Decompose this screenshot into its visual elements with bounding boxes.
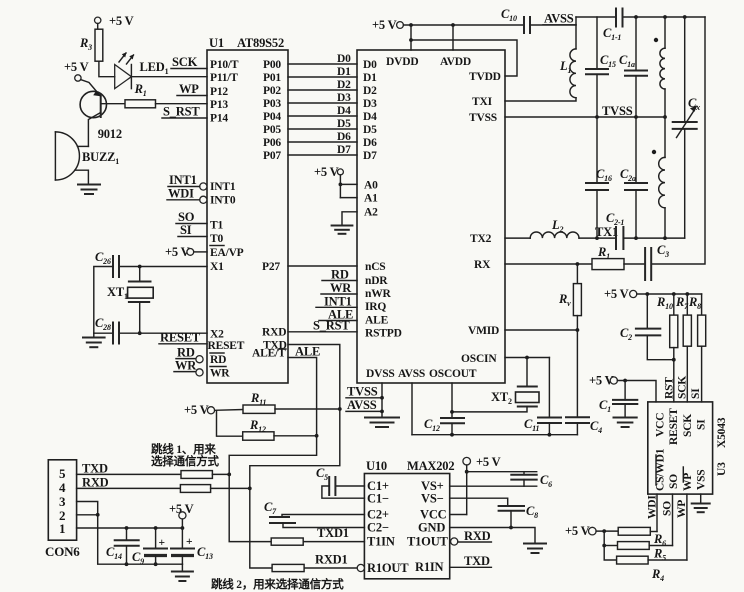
node RXD (T1OUT stub) xyxy=(451,529,492,545)
svg-text:ALE: ALE xyxy=(295,345,320,359)
node AVDD junction xyxy=(451,23,455,27)
+5V terminal (emitter) xyxy=(64,60,89,81)
svg-text:+5 V: +5 V xyxy=(565,524,590,538)
capacitor C3 xyxy=(645,243,669,280)
node SO (label stub) xyxy=(176,210,207,224)
svg-text:+5 V: +5 V xyxy=(109,14,134,28)
svg-text:SCK: SCK xyxy=(682,414,694,437)
svg-text:EA/VP: EA/VP xyxy=(210,247,244,259)
svg-text:D2: D2 xyxy=(337,79,351,91)
svg-text:P07: P07 xyxy=(263,150,281,162)
resistor jumper J1 xyxy=(181,471,212,479)
svg-text:DVDD: DVDD xyxy=(386,56,418,68)
transistor Q1 9012 xyxy=(80,80,122,147)
wire TX2 xyxy=(505,237,530,239)
svg-text:X1: X1 xyxy=(210,261,224,273)
svg-text:WDI: WDI xyxy=(647,495,659,519)
capacitor C10 xyxy=(501,7,530,33)
svg-text:T1IN: T1IN xyxy=(367,535,395,549)
crystal XT2 xyxy=(452,358,539,412)
ground (C28) xyxy=(83,333,105,347)
capacitor C1 xyxy=(599,381,637,418)
svg-text:OSCIN: OSCIN xyxy=(461,353,497,365)
wire pin5 TXD xyxy=(77,473,181,475)
svg-text:RXD1: RXD1 xyxy=(315,553,348,567)
resistor R6 xyxy=(618,527,666,548)
wire RX xyxy=(505,263,592,265)
node TVSS (label stub) xyxy=(346,385,384,400)
svg-text:TXI: TXI xyxy=(472,96,493,108)
svg-text:A2: A2 xyxy=(364,207,378,219)
node top rail junctions xyxy=(634,15,638,19)
svg-text:P11/T: P11/T xyxy=(210,72,238,84)
svg-text:D6: D6 xyxy=(363,137,377,149)
svg-text:D5: D5 xyxy=(363,124,377,136)
wire right edge (antenna return) xyxy=(651,17,705,264)
ground (A2) xyxy=(332,226,353,234)
resistor jumper J2 xyxy=(180,485,210,493)
node ALE label + wire ALE/T net xyxy=(227,345,320,542)
node RESET (label stub) xyxy=(159,331,207,345)
+5V terminal (pullups) xyxy=(604,287,702,301)
svg-text:WP: WP xyxy=(676,500,688,518)
ground (buzzer) xyxy=(78,185,100,195)
data bus wires D0-D7 with labels xyxy=(288,53,357,156)
LED LED1 xyxy=(115,52,169,88)
capacitor C11 xyxy=(524,358,561,435)
wire VS- / capacitor C8 xyxy=(450,498,538,529)
wire xyxy=(97,24,99,30)
svg-text:WR: WR xyxy=(210,368,230,380)
U1 right pin names xyxy=(252,59,287,360)
svg-text:RXD: RXD xyxy=(464,529,491,543)
svg-text:+5 V: +5 V xyxy=(476,455,501,469)
svg-text:3: 3 xyxy=(59,494,66,509)
wire C26 to C28 xyxy=(94,267,113,334)
svg-text:R1IN: R1IN xyxy=(415,560,444,574)
svg-text:VCC: VCC xyxy=(420,508,447,522)
wire pin1 +5V rail xyxy=(77,526,185,530)
svg-text:P14: P14 xyxy=(210,113,228,125)
svg-text:SO: SO xyxy=(178,210,195,224)
resistor R11 xyxy=(215,391,340,413)
svg-text:C2−: C2− xyxy=(367,521,389,535)
resistor R4 xyxy=(617,556,687,583)
node X2 junction xyxy=(138,331,142,335)
wire LED to P11/T xyxy=(131,76,207,78)
svg-text:WP: WP xyxy=(179,82,199,96)
node S_RST wire RXD-RSTPD xyxy=(288,319,357,333)
wire L1 to TXI xyxy=(505,98,576,101)
node TVSS rail xyxy=(505,104,667,119)
svg-text:AVSS: AVSS xyxy=(544,12,574,26)
resistor R1 (base) xyxy=(102,82,207,108)
wire VS+ xyxy=(450,485,537,487)
node RD (label stub) xyxy=(322,268,357,282)
wire TXD net xyxy=(248,345,342,569)
capacitor C13 (electrolytic) xyxy=(171,528,213,564)
op IC U1 box xyxy=(207,36,288,383)
svg-text:BUZZ1: BUZZ1 xyxy=(82,150,119,166)
svg-text:INT0: INT0 xyxy=(210,195,236,207)
svg-text:RD: RD xyxy=(210,354,226,366)
+5V terminal (U2 supply) xyxy=(372,18,403,32)
resistor R1 (RX) xyxy=(592,245,645,270)
ground (VSS) xyxy=(692,494,710,512)
svg-text:P01: P01 xyxy=(263,72,281,84)
node SCK (label stub) xyxy=(171,55,207,69)
node INT1 (label stub) xyxy=(168,173,200,187)
svg-text:D3: D3 xyxy=(337,92,351,104)
wire AVDD stub xyxy=(452,25,454,50)
capacitor C15 xyxy=(586,17,616,117)
svg-text:D4: D4 xyxy=(363,111,377,123)
svg-text:nDR: nDR xyxy=(365,275,388,287)
resistor R8 xyxy=(688,294,706,402)
svg-text:TXD: TXD xyxy=(82,462,108,476)
U10 right pin names xyxy=(407,479,449,574)
svg-text:nCS: nCS xyxy=(365,261,386,273)
svg-text:RD: RD xyxy=(331,268,349,282)
svg-text:D6: D6 xyxy=(337,131,351,143)
wire WDI / SO / WP stubs xyxy=(657,494,687,560)
+5V terminal EA/VP xyxy=(165,245,207,259)
svg-text:R1OUT: R1OUT xyxy=(367,561,409,575)
node RD (label stub) xyxy=(176,346,203,363)
svg-text:TVSS: TVSS xyxy=(347,385,378,399)
node AVSS (label stub) xyxy=(346,398,384,413)
node WR (label stub) xyxy=(321,281,357,295)
wire GND xyxy=(450,528,535,544)
svg-text:A1: A1 xyxy=(364,193,378,205)
svg-text:RESET: RESET xyxy=(208,340,245,352)
capacitor C9 (electrolytic) xyxy=(132,528,167,566)
svg-text:T1: T1 xyxy=(210,220,223,232)
wire analog ground rail xyxy=(412,433,577,437)
svg-text:D1: D1 xyxy=(363,72,377,84)
pin bubble INT0 xyxy=(200,196,207,203)
wire J1 to net xyxy=(212,473,229,475)
pin bubble INT1 xyxy=(200,183,207,190)
svg-text:D3: D3 xyxy=(363,98,377,110)
svg-text:跳线 1、用来: 跳线 1、用来 xyxy=(151,442,216,456)
capacitor C12 xyxy=(424,383,464,435)
wire +5V rail xyxy=(403,24,524,26)
svg-text:S_RST: S_RST xyxy=(313,319,350,333)
svg-text:9012: 9012 xyxy=(98,127,122,141)
node INT1 (label stub) xyxy=(316,295,357,309)
svg-text:AVDD: AVDD xyxy=(440,56,471,68)
svg-text:D5: D5 xyxy=(337,118,351,130)
node S_RST (label stub) xyxy=(162,105,207,119)
+5V terminal (MAX202) xyxy=(450,455,537,515)
svg-text:DVSS: DVSS xyxy=(366,368,395,380)
op IC U10 box xyxy=(364,459,454,579)
svg-text:+5 V: +5 V xyxy=(64,60,89,74)
resistor Rv (RX to VMID) xyxy=(558,264,581,330)
+5V terminal (CON6) xyxy=(169,502,194,528)
resistor R10 xyxy=(656,294,678,402)
resistor jumper J3 xyxy=(271,538,303,545)
svg-text:P10/T: P10/T xyxy=(210,59,239,71)
node X1 junction xyxy=(138,265,142,269)
svg-text:P00: P00 xyxy=(263,59,281,71)
ground (CON6 rail) xyxy=(172,564,193,581)
svg-text:WR: WR xyxy=(175,359,197,373)
svg-text:P05: P05 xyxy=(263,124,281,136)
svg-text:IRQ: IRQ xyxy=(365,301,386,313)
svg-text:+5 V: +5 V xyxy=(372,18,397,32)
svg-text:P02: P02 xyxy=(263,85,281,97)
U2 right pin names xyxy=(461,71,501,365)
svg-text:+5 V: +5 V xyxy=(184,403,209,417)
svg-text:RXD: RXD xyxy=(82,476,109,490)
wire xyxy=(99,61,115,76)
svg-text:+5 V: +5 V xyxy=(604,287,629,301)
svg-text:ALE: ALE xyxy=(365,315,389,327)
svg-text:nWR: nWR xyxy=(365,288,391,300)
note jumper1 text xyxy=(151,442,219,468)
svg-text:SO: SO xyxy=(662,501,674,516)
capacitor C2 xyxy=(620,294,676,362)
svg-text:D2: D2 xyxy=(363,85,377,97)
wire OSCIN xyxy=(505,357,549,359)
svg-text:AVSS: AVSS xyxy=(398,368,425,380)
svg-text:OSCOUT: OSCOUT xyxy=(429,368,477,380)
variable capacitor Cx xyxy=(673,17,700,238)
svg-text:TVSS: TVSS xyxy=(602,104,633,118)
svg-text:5: 5 xyxy=(59,466,66,481)
node RST / SCK / SI labels (rotated) xyxy=(664,376,702,399)
wire antenna top rail xyxy=(576,17,705,49)
svg-text:INT1: INT1 xyxy=(324,295,352,309)
node DVDD junction xyxy=(409,23,413,27)
capacitor C7 xyxy=(264,500,364,528)
svg-text:VS−: VS− xyxy=(421,492,444,506)
svg-text:X5043: X5043 xyxy=(716,417,728,448)
U2 bottom pin names xyxy=(366,368,477,380)
op IC U2 box xyxy=(357,50,505,383)
svg-text:D0: D0 xyxy=(337,53,351,65)
wire DVDD stub xyxy=(410,25,412,50)
svg-text:INT1: INT1 xyxy=(210,181,236,193)
svg-text:SCK: SCK xyxy=(172,55,198,69)
node TX1 (label) xyxy=(579,225,618,239)
svg-text:U3: U3 xyxy=(716,462,728,476)
U2 top pin names xyxy=(386,56,471,68)
svg-text:VMID: VMID xyxy=(468,325,499,337)
capacitor C28 xyxy=(94,316,207,344)
buzzer BUZZ1 xyxy=(55,132,119,184)
wire A2 to ground xyxy=(342,212,357,225)
capacitor C1-1 (series in top rail) xyxy=(603,9,623,43)
capacitor C26 xyxy=(95,250,207,277)
resistor jumper J4 xyxy=(272,564,304,571)
resistor R7 xyxy=(675,294,691,402)
+5V terminal (R11/R12) xyxy=(184,403,215,417)
svg-text:S_RST: S_RST xyxy=(163,105,200,119)
svg-text:P12: P12 xyxy=(210,86,228,98)
svg-text:CON6: CON6 xyxy=(45,544,80,559)
wire DVSS stub xyxy=(381,383,383,417)
inductor L1 xyxy=(559,49,576,98)
inductor L2 xyxy=(530,218,579,238)
svg-text:+: + xyxy=(186,536,192,548)
capacitor C5 xyxy=(316,466,364,498)
+5V terminal (A0/A1) xyxy=(314,165,357,198)
U2 left pin names xyxy=(363,59,402,340)
svg-text:WDI: WDI xyxy=(168,187,194,201)
svg-text:4: 4 xyxy=(59,480,66,495)
node TXD1 wire to T1IN xyxy=(303,526,364,542)
wire P27 to nCS xyxy=(288,265,357,267)
svg-text:1: 1 xyxy=(59,521,65,536)
svg-text:INT1: INT1 xyxy=(169,173,197,187)
svg-text:+5 V: +5 V xyxy=(165,245,190,259)
wire TVDD feed xyxy=(411,40,517,76)
svg-text:TVSS: TVSS xyxy=(469,112,497,124)
svg-text:P13: P13 xyxy=(210,99,228,111)
capacitor C6 xyxy=(511,472,552,489)
svg-text:D1: D1 xyxy=(337,66,351,78)
node TVDD rail junction xyxy=(409,38,413,42)
node RXD1 wire to R1OUT xyxy=(304,553,364,572)
svg-text:SI: SI xyxy=(180,223,192,237)
svg-text:跳线 2，用来选择通信方式: 跳线 2，用来选择通信方式 xyxy=(211,577,344,591)
svg-text:LED1: LED1 xyxy=(140,60,169,76)
capacitor C2-1 (series in TX1 rail) xyxy=(606,211,624,249)
+5V terminal (R4-R6) xyxy=(565,524,618,560)
svg-text:RESET: RESET xyxy=(668,408,680,445)
node WDI (label stub) xyxy=(167,187,200,201)
svg-text:+: + xyxy=(159,537,165,549)
svg-text:RX: RX xyxy=(474,259,491,271)
svg-text:U10: U10 xyxy=(366,459,387,473)
svg-text:AVSS: AVSS xyxy=(347,398,377,412)
crystal XT1 xyxy=(107,267,153,334)
svg-text:TVDD: TVDD xyxy=(469,71,501,83)
svg-text:C1−: C1− xyxy=(367,492,389,506)
wire pins 2,3 to ground rail xyxy=(77,502,183,567)
svg-text:TX2: TX2 xyxy=(470,233,492,245)
svg-text:A0: A0 xyxy=(364,180,378,192)
U1 left pin names xyxy=(208,59,245,380)
svg-text:MAX202: MAX202 xyxy=(407,459,454,473)
antenna coil upper xyxy=(654,17,665,117)
svg-text:RXD: RXD xyxy=(262,327,286,339)
capacitor C1a xyxy=(619,17,647,117)
svg-text:P04: P04 xyxy=(263,111,281,123)
svg-text:D7: D7 xyxy=(363,150,377,162)
svg-text:SI: SI xyxy=(690,388,702,399)
node AVSS (label on wire) xyxy=(530,12,576,26)
resistor R12 xyxy=(217,411,317,440)
wire pin4 RXD xyxy=(77,487,181,489)
ground (DVSS) xyxy=(365,418,399,428)
svg-text:D7: D7 xyxy=(337,144,351,156)
svg-text:D4: D4 xyxy=(337,105,351,117)
+5V terminal (C1) xyxy=(589,374,656,402)
svg-text:RESET: RESET xyxy=(160,331,201,345)
svg-text:SO: SO xyxy=(668,474,680,489)
antenna coil lower xyxy=(652,117,665,238)
U10 left pin names xyxy=(367,479,409,575)
svg-text:P27: P27 xyxy=(262,261,280,273)
svg-text:D0: D0 xyxy=(363,59,377,71)
svg-text:X2: X2 xyxy=(210,329,224,341)
capacitor C16 xyxy=(586,117,612,238)
svg-text:AT89S52: AT89S52 xyxy=(237,36,284,50)
capacitor C2a xyxy=(620,117,647,238)
svg-text:选择通信方式: 选择通信方式 xyxy=(151,454,219,468)
connector CON6 xyxy=(45,460,80,559)
svg-text:+5 V: +5 V xyxy=(314,165,339,179)
wire AVSS pin to rail xyxy=(411,383,413,435)
ground (C1) xyxy=(614,418,637,428)
svg-text:RST: RST xyxy=(664,377,676,399)
svg-text:T1OUT: T1OUT xyxy=(407,535,449,549)
svg-text:SI: SI xyxy=(696,419,708,430)
resistor R5 xyxy=(618,542,673,563)
node WP (label stub) xyxy=(177,82,207,96)
node WR (label stub) xyxy=(174,359,203,377)
svg-text:GND: GND xyxy=(418,521,445,535)
wire J2 to net xyxy=(211,487,250,489)
node WDI / SO / WP labels (rotated) xyxy=(647,495,688,519)
svg-text:VCC: VCC xyxy=(655,413,667,437)
capacitor C4 xyxy=(566,330,602,435)
resistor R3 xyxy=(79,29,103,61)
op IC U3 box xyxy=(648,402,728,494)
node SI (label stub) xyxy=(178,223,207,237)
svg-text:U1: U1 xyxy=(209,36,224,50)
svg-text:RD: RD xyxy=(177,346,195,360)
svg-text:T0: T0 xyxy=(210,233,223,245)
svg-text:TXD: TXD xyxy=(464,554,490,568)
wire VMID xyxy=(505,329,577,331)
node ALE (label stub) xyxy=(319,308,357,322)
wire TX1 rail xyxy=(595,236,685,240)
svg-text:SCK: SCK xyxy=(677,376,689,399)
capacitor C14 xyxy=(106,528,139,564)
ground (MAX202) xyxy=(524,544,546,554)
svg-text:VSS: VSS xyxy=(696,470,708,491)
svg-text:C2+: C2+ xyxy=(367,508,389,522)
svg-text:TXD1: TXD1 xyxy=(317,526,349,540)
svg-text:RSTPD: RSTPD xyxy=(365,328,402,340)
node TXD (R1IN stub) xyxy=(450,554,492,568)
svg-text:WR: WR xyxy=(330,281,352,295)
svg-text:P03: P03 xyxy=(263,98,281,110)
svg-text:P06: P06 xyxy=(263,137,281,149)
+5V terminal (top left) xyxy=(95,14,134,28)
